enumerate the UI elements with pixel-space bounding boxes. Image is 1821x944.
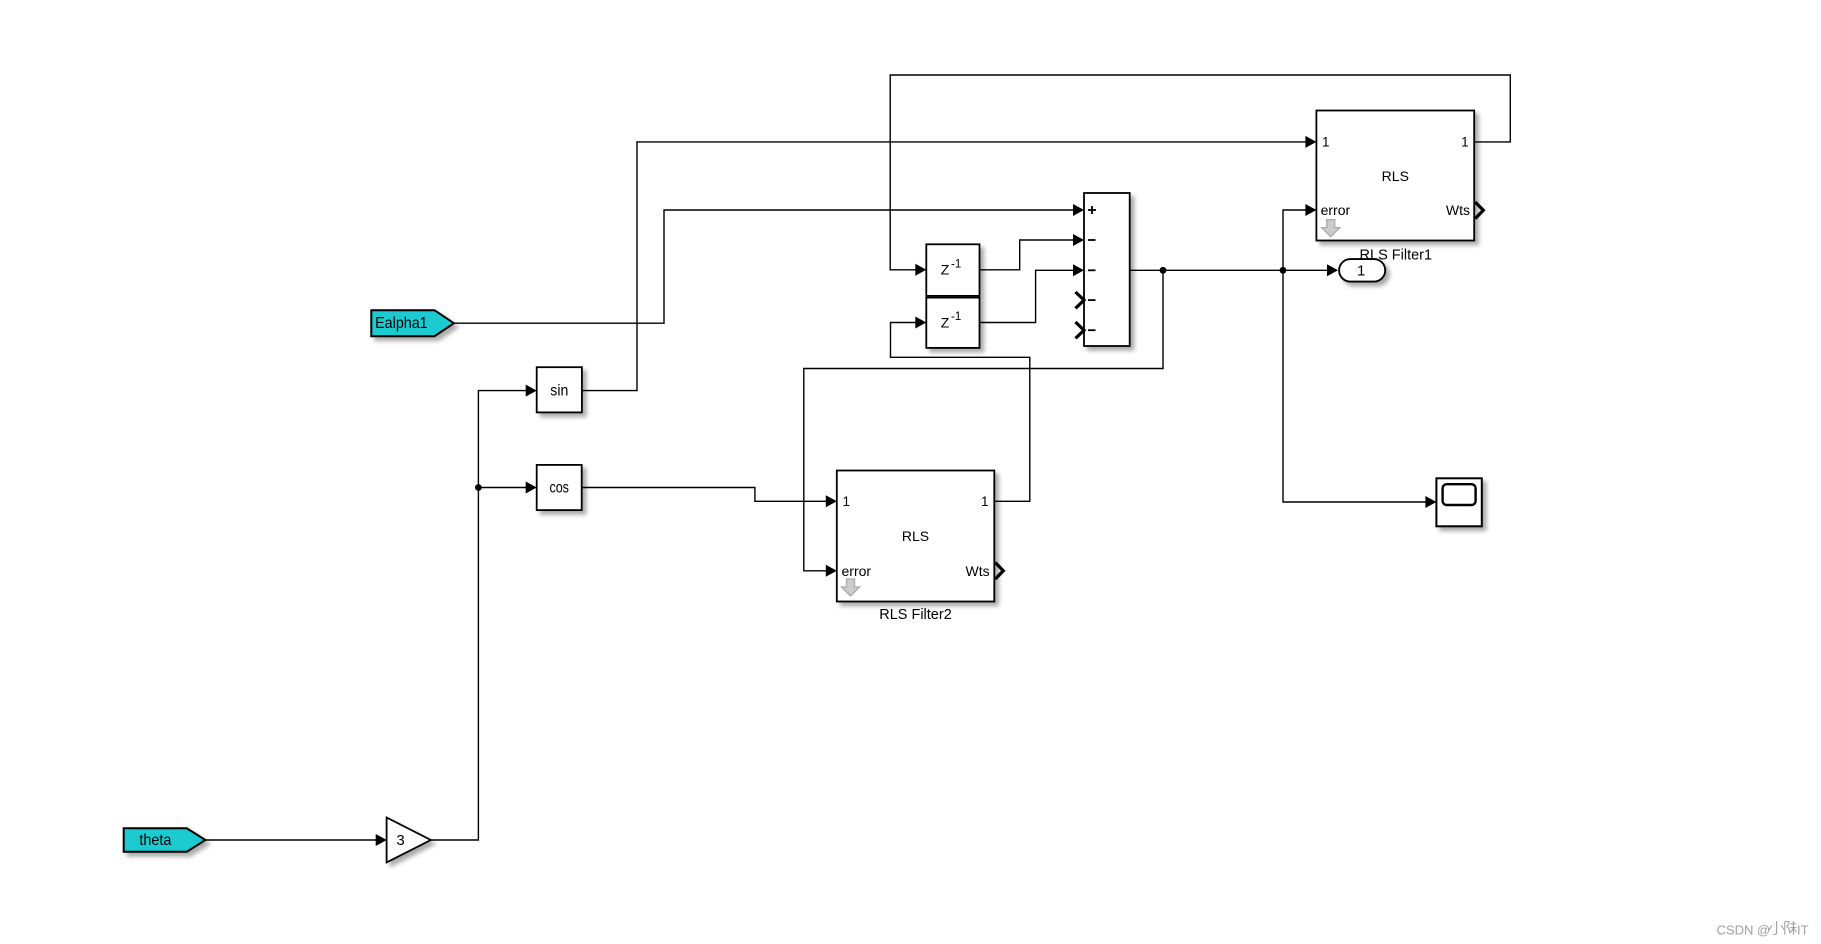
svg-text:CSDN @: CSDN @	[1717, 923, 1771, 938]
svg-text:sin: sin	[550, 382, 568, 399]
sum sign plus port 1	[1088, 206, 1096, 214]
wire RLS Filter2 output 1 to delay Z2	[891, 317, 1030, 502]
sum block	[1084, 193, 1130, 346]
Wts unconnected output chevron RLS Filter1	[1475, 202, 1483, 219]
svg-text:error: error	[842, 563, 872, 579]
label RLS Filter1	[1360, 247, 1433, 263]
sum sign minus port 5	[1088, 329, 1096, 331]
grey enable arrow RLS Filter2	[842, 579, 860, 596]
svg-text:IT: IT	[1797, 923, 1809, 938]
svg-text:cos: cos	[549, 480, 569, 497]
sum sign minus port 4	[1088, 299, 1096, 301]
wire Gain to sin and cos	[431, 385, 537, 840]
svg-text:3: 3	[396, 832, 404, 849]
sum unconnected input chevron port 4	[1076, 292, 1085, 308]
junction at gain branch	[475, 484, 482, 491]
svg-text:Ealpha1: Ealpha1	[375, 315, 428, 332]
wire RLS Filter1 output 1 feedback to delay Z1	[890, 75, 1510, 276]
svg-text:RLS Filter2: RLS Filter2	[879, 607, 952, 623]
gain block 3	[387, 818, 431, 863]
svg-text:RLS: RLS	[1382, 168, 1409, 184]
svg-text:Z: Z	[941, 262, 950, 278]
svg-text:1: 1	[1322, 134, 1330, 149]
wire to Scope	[1283, 270, 1436, 508]
junction node on sum output 2	[1280, 267, 1287, 274]
subsystem RLS Filter2	[837, 471, 995, 602]
output port 1 oval	[1339, 259, 1385, 282]
svg-text:1: 1	[981, 494, 989, 509]
sin block	[537, 367, 582, 412]
subsystem RLS Filter1	[1316, 111, 1474, 241]
wire error feedback to RLS Filter2	[804, 270, 1163, 577]
wire delay Z1 to Sum input 2	[980, 234, 1085, 270]
svg-text:1: 1	[843, 494, 851, 509]
sum sign minus port 2	[1088, 239, 1096, 241]
wire theta to Gain	[205, 834, 386, 846]
svg-text:theta: theta	[139, 832, 171, 849]
delay block Z1	[926, 244, 979, 296]
svg-text:Wts: Wts	[1446, 202, 1470, 218]
watermark CSDN	[1717, 921, 1809, 938]
wire error feedback to RLS Filter1	[1283, 204, 1316, 270]
junction node on sum output 1	[1160, 267, 1167, 274]
svg-text:1: 1	[1357, 263, 1365, 280]
input tag Ealpha1	[371, 310, 454, 336]
wire cos to RLS Filter2 input 1	[582, 488, 837, 508]
wire sin to RLS Filter1 input 1	[582, 136, 1317, 391]
cos block	[537, 465, 582, 510]
label RLS Filter2	[879, 607, 952, 623]
svg-text:1: 1	[1461, 134, 1469, 149]
sum sign minus port 3	[1088, 269, 1096, 271]
svg-text:-1: -1	[951, 311, 961, 323]
svg-text:RLS: RLS	[902, 528, 929, 544]
wire Sum output to out port 1	[1130, 264, 1338, 276]
svg-text:-1: -1	[951, 258, 961, 270]
wire Ealpha1 to Sum plus input	[454, 204, 1084, 323]
input tag theta	[124, 828, 206, 852]
Wts unconnected output chevron RLS Filter2	[995, 563, 1003, 580]
svg-text:error: error	[1321, 202, 1351, 218]
grey enable arrow RLS Filter1	[1322, 220, 1340, 237]
scope block	[1436, 478, 1481, 526]
hanzi xiao	[1769, 921, 1784, 935]
delay block Z2	[926, 298, 979, 348]
svg-text:Wts: Wts	[965, 563, 989, 579]
wire delay Z2 to Sum input 3	[980, 264, 1085, 322]
hanzi chen	[1785, 921, 1797, 935]
svg-text:Z: Z	[941, 314, 950, 330]
sum unconnected input chevron port 5	[1076, 322, 1085, 338]
